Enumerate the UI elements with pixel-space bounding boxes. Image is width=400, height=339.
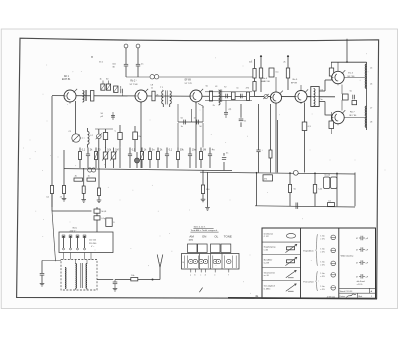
wire to C41 (97, 279, 113, 281)
label Tr1 (160, 87, 165, 92)
component 0,1 at x=130 (128, 148, 136, 169)
note line 1 (193, 226, 213, 229)
svg-text:1n: 1n (181, 126, 183, 128)
svg-text:alle Kond.: alle Kond. (357, 281, 366, 283)
svg-text:52 T 78: 52 T 78 (185, 83, 193, 85)
svg-text:1 Go: 1 Go (320, 286, 324, 288)
wire: speaker column (366, 62, 368, 130)
capacitor C15 box (269, 68, 279, 77)
legend row 1 label (264, 233, 274, 238)
label mains (70, 227, 77, 233)
output transformer secondary L6 (365, 106, 366, 127)
wire: output rail y=62 (331, 61, 367, 63)
resistor R3b (114, 86, 118, 92)
capacitor C18 (194, 118, 203, 129)
resistor R5 with ground (60, 150, 67, 201)
resistor R26 (87, 175, 96, 181)
svg-text:52 T 5N: 52 T 5N (130, 84, 138, 86)
coil L2 osc (88, 128, 90, 148)
svg-text:1 Go: 1 Go (320, 262, 324, 264)
capacitor C33 box (328, 200, 335, 206)
svg-text:EABC 80: EABC 80 (261, 80, 271, 83)
wire drop x=203 (198, 104, 203, 148)
transformer dashed box (61, 260, 97, 291)
frame bottom heavy segment (228, 297, 377, 300)
svg-text:5n: 5n (226, 152, 228, 154)
label tube V1 (62, 76, 71, 81)
wire stub V1 grid (52, 95, 64, 97)
legend row 5 label (264, 286, 275, 291)
resistor R30 (263, 175, 273, 181)
resistor R15 (259, 68, 262, 78)
svg-text:47k: 47k (264, 178, 267, 180)
switch contact 5 (213, 259, 217, 263)
switch bank contact strips (184, 256, 236, 269)
variable capacitor C1a (tuning gang) (72, 134, 80, 142)
svg-text:m. Gl.: m. Gl. (264, 275, 270, 277)
trimmer C9 (150, 75, 159, 79)
svg-text:d: d (205, 274, 206, 276)
svg-text:Ger.abgleich: Ger.abgleich (264, 286, 275, 288)
legend mid row 2 (320, 248, 335, 253)
wire: rail to V4 top (275, 77, 277, 92)
svg-text:47: 47 (356, 276, 358, 278)
label tube V7 (349, 112, 357, 117)
capacitor C14b (224, 101, 228, 119)
wire drop x=355 (354, 173, 356, 207)
wire: V6 to V7 link (341, 85, 343, 111)
title block line 1 (340, 290, 373, 293)
svg-text:± 5%: ± 5% (320, 289, 325, 291)
wire drop x=178 (177, 104, 179, 148)
component 2k at x=158 (157, 148, 164, 169)
legend right row 2 (356, 247, 369, 251)
wire to R41 (115, 279, 131, 281)
component 4n at x=210 (208, 148, 215, 169)
component 1k at x=142 (140, 148, 147, 169)
capacitor C3 box (115, 125, 123, 168)
switch bank dividers (200, 254, 223, 270)
svg-text:a: a (190, 274, 191, 276)
svg-text:1n: 1n (151, 87, 153, 89)
resistor R32 (313, 173, 322, 207)
svg-text:ON: ON (202, 234, 206, 238)
wire: V2 cathode drop (140, 102, 142, 168)
trimmer C2 (96, 129, 102, 168)
svg-text:Rö 7: Rö 7 (350, 112, 355, 114)
svg-text:Kopplungssp.: Kopplungssp. (264, 247, 277, 249)
wire: V3 cathode drop (195, 102, 197, 168)
legend symbol variable 1 (286, 270, 296, 277)
legend symbol potentiometer 1 (285, 244, 296, 252)
svg-text:220 240: 220 240 (89, 243, 97, 245)
component 1M at x=113.5 (110, 148, 118, 169)
svg-text:1 Go: 1 Go (320, 249, 324, 251)
svg-text:Drehkond.: Drehkond. (264, 233, 274, 235)
electrolytic C30 C31 (324, 175, 337, 189)
component 0,1 at x=80 (79, 148, 86, 169)
svg-text:b. Mitte: b. Mitte (264, 288, 271, 291)
wire: supply rail y=211 and drop to mains (52, 194, 92, 262)
capacitor C32 (296, 203, 298, 209)
svg-text:± 20 %: ± 20 % (357, 284, 363, 286)
note right column (357, 281, 366, 286)
svg-text:Stell. d. Dr.T.: Stell. d. Dr.T. (194, 226, 206, 229)
wire: ground bus y=169 (64, 169, 232, 171)
wire: HT rail y=206 (255, 206, 355, 207)
svg-text:Stand 7-12-53: Stand 7-12-53 (340, 290, 354, 293)
svg-text:OL: OL (214, 234, 218, 238)
svg-text:± 5%: ± 5% (320, 264, 325, 266)
wire V7 to OT (344, 117, 366, 119)
title block signature (340, 294, 356, 298)
svg-text:47: 47 (356, 238, 358, 240)
svg-text:50k: 50k (249, 61, 252, 63)
svg-text:47: 47 (356, 250, 358, 252)
label R6 C8 (150, 85, 159, 97)
svg-text:Expedition: Expedition (303, 250, 314, 253)
svg-text:5n: 5n (320, 99, 322, 101)
svg-text:2k: 2k (283, 61, 285, 63)
svg-text:2k: 2k (213, 105, 215, 107)
svg-text:50+50: 50+50 (324, 175, 331, 177)
wire: detector link y=122 (178, 121, 203, 123)
fuses Si1 Si2 (94, 207, 100, 232)
svg-text:110 125: 110 125 (89, 239, 97, 241)
svg-text:Taste AM u. Tonbl. ausgesch.: Taste AM u. Tonbl. ausgesch. (191, 229, 218, 232)
wire: B+ drop R16 (287, 55, 289, 90)
labels R2 R3 (100, 78, 110, 80)
wires stage3 rails (205, 92, 252, 101)
title block rows (339, 288, 376, 293)
terminal E (183, 262, 185, 264)
wire V6 anode up (337, 62, 339, 71)
note line 2 (190, 229, 218, 232)
svg-text:± 5%: ± 5% (320, 251, 325, 253)
table column dividers (301, 228, 339, 298)
capacitor C12 (226, 94, 228, 99)
legend symbol ellipse (286, 234, 295, 239)
output transformer primary L5 (365, 64, 366, 88)
labels Si1 Si2 (101, 211, 106, 220)
svg-text:b: b (195, 274, 196, 276)
legend symbol potentiometer 2 (285, 257, 296, 265)
labels stage3 (206, 86, 250, 90)
resistor R41 (131, 275, 138, 281)
svg-text:Rö 5: Rö 5 (293, 79, 298, 81)
wire: AVC line y=129 (95, 128, 113, 130)
legend right row 3 (356, 260, 369, 264)
svg-text:220 V∼: 220 V∼ (70, 231, 77, 233)
svg-text:EF 89: EF 89 (291, 82, 298, 84)
brace group 1 (316, 234, 318, 266)
wire: V5 anode load drop (304, 103, 306, 173)
antenna (157, 255, 163, 268)
junction dot (91, 56, 92, 57)
capacitor C14 (239, 104, 247, 127)
tube V7 EL84 (332, 110, 345, 125)
coupling network R20 C20 (343, 90, 355, 100)
component drk at x=137 (135, 152, 140, 168)
transformer leads (76, 260, 88, 291)
wire stubs Tr1 (163, 104, 169, 107)
capacitor C4a (111, 112, 115, 120)
capacitor C7 C8 (124, 64, 140, 66)
wire drop x=337 (336, 173, 338, 207)
switch contact 6 (216, 259, 220, 263)
resistor R2 (101, 84, 105, 90)
wire: HT rail y=172.5 (200, 172, 355, 174)
svg-text:e: e (214, 274, 215, 276)
component 10k at x=105.5 (102, 148, 112, 169)
lamp on rail and junction dots (256, 170, 338, 175)
svg-text:10k: 10k (131, 275, 134, 277)
legend right row 4 (356, 274, 369, 278)
resistor R2b (103, 129, 107, 148)
wire junction (138, 279, 154, 281)
resistor R4 (46, 186, 53, 199)
switch contact 4 (203, 259, 207, 263)
resistor R11 (246, 92, 249, 100)
wire antenna stem (153, 268, 161, 280)
svg-text:1n: 1n (194, 118, 196, 120)
core Tr1 (166, 90, 168, 104)
Tr3 windings (311, 89, 319, 106)
svg-text:1M: 1M (115, 150, 118, 152)
selector contacts (62, 235, 86, 248)
labels selector (89, 239, 97, 248)
capacitor C41 ground (113, 280, 118, 292)
svg-text:ECH 81: ECH 81 (62, 78, 71, 81)
svg-text:5k: 5k (294, 189, 296, 191)
resistor R31 (288, 173, 295, 207)
resistor R2c (133, 126, 142, 152)
selector terminals (63, 248, 86, 250)
switch contact 1 (189, 259, 193, 263)
svg-text:0,1: 0,1 (328, 200, 331, 202)
resistors R13 R14 stack (253, 59, 256, 96)
svg-text:EL 4: EL 4 (348, 73, 353, 75)
voltage selector box (59, 232, 113, 253)
resistor R3 (106, 84, 110, 90)
legend row 3 label (264, 259, 273, 265)
brace group 2 (316, 271, 318, 291)
wire drop x=256.5 (256, 173, 258, 206)
component 5n at x=150 (149, 148, 156, 169)
resistor R22 (329, 112, 334, 134)
capacitor C23 grid V6 (329, 62, 333, 80)
caption small (189, 238, 193, 241)
trimmer C16 (263, 94, 269, 99)
switch terminals (191, 269, 229, 272)
svg-text:47: 47 (356, 263, 358, 265)
wire: main signal path y=96 (52, 96, 335, 97)
svg-text:± 5%: ± 5% (320, 238, 325, 240)
svg-text:AM: AM (189, 234, 194, 238)
svg-text:Rö 4: Rö 4 (262, 78, 267, 80)
mark slash (199, 288, 202, 293)
svg-text:1k: 1k (88, 175, 90, 177)
svg-text:5k: 5k (350, 90, 352, 92)
wire stub detector (191, 109, 193, 122)
switch contact 7 (227, 259, 231, 263)
tube V2 EF89 (135, 89, 148, 104)
coil L1 antenna (83, 91, 84, 103)
push buttons (188, 244, 231, 253)
wire stub V5 top (300, 85, 302, 90)
table row dividers (262, 242, 301, 280)
spacer (42, 245, 59, 247)
core L1 (85, 90, 86, 101)
capacitor C4 (121, 86, 123, 96)
svg-text:Blatt: Blatt (358, 295, 362, 298)
component 1M at x=201 (200, 148, 207, 169)
drawing number (327, 297, 336, 299)
labels stage3 lower (213, 105, 233, 111)
gang link dashed (80, 137, 84, 139)
wire: left AVC bus x=52 (51, 96, 53, 207)
wire drop x=277 (277, 120, 279, 173)
tube V5 EABC80 (295, 89, 308, 104)
resistor R12 with ground (201, 170, 211, 202)
capacitor C13 (240, 94, 242, 99)
switch bank body (182, 254, 240, 270)
labels OT (370, 67, 373, 123)
svg-text:Datum: Datum (340, 295, 346, 298)
wire V6 to OT (344, 77, 366, 79)
wire drop x=207 ground (205, 173, 210, 211)
wire Tr3 to V7 grid (319, 102, 332, 116)
switch contact 3 (199, 259, 203, 263)
wire: B+ drop R15 (260, 55, 262, 92)
label tube V4 (261, 78, 271, 83)
capacitor C19 (222, 152, 228, 170)
core L3 (221, 90, 222, 103)
svg-text:EF 89: EF 89 (185, 80, 192, 82)
table outer box (262, 228, 376, 298)
transformer secondary W3 (85, 264, 88, 289)
resistor R25 (74, 175, 83, 181)
resistor R18 (302, 122, 311, 131)
component 0,1 at x=167 (165, 148, 173, 169)
label tube V6 (347, 73, 355, 78)
svg-text:1,2k: 1,2k (318, 189, 322, 191)
svg-text:V ∼: V ∼ (91, 246, 95, 248)
wire: dial lamp drops (126, 48, 138, 77)
tube V4 EABC80 (270, 91, 282, 105)
value labels C7 C8 (112, 63, 144, 68)
legend row 4 label (264, 271, 276, 277)
label tube V3 (185, 80, 193, 85)
labels R15 R16 (249, 61, 286, 63)
svg-text:Netz: Netz (73, 227, 77, 230)
wire stubs R2 R3 (103, 81, 109, 85)
svg-text:Widerstandsw.: Widerstandsw. (341, 255, 354, 258)
wires selector to transformer (64, 253, 92, 260)
mark at table left (255, 294, 259, 298)
wire: HT from frame top (346, 39, 348, 63)
IF transformer Tr3 box (311, 87, 319, 107)
schematic border frame (17, 38, 379, 298)
resistor R6 (152, 91, 155, 101)
terminal labels (190, 274, 229, 276)
svg-text:Gleichrichter: Gleichrichter (264, 271, 276, 274)
component 50 at x=96 (94, 148, 101, 169)
wire: V1 cathode to gang (75, 101, 77, 134)
labels Tr3 (320, 90, 323, 101)
transformer winding W1 (64, 268, 67, 289)
wire V5 to Tr3 (307, 96, 311, 98)
svg-text:1 Go: 1 Go (320, 236, 324, 238)
capacitor C17 (181, 118, 186, 129)
svg-text:0,4 W: 0,4 W (264, 263, 269, 265)
legend right row 1 (356, 236, 369, 240)
label tube V2 (130, 80, 138, 85)
IF transformer Tr1 windings (162, 91, 172, 104)
switch contact 2 (193, 259, 197, 263)
transformer primary W2 (75, 264, 78, 289)
wire: V4 drop (275, 103, 277, 172)
label group 1 (303, 250, 314, 253)
label tube V5 (291, 79, 298, 84)
svg-text:Si 0,8: Si 0,8 (101, 211, 106, 213)
svg-text:Rö 2: Rö 2 (130, 80, 136, 82)
component 10n at x=190 (188, 148, 196, 169)
title block line 2 (358, 295, 372, 298)
lamp La1 La2 (124, 44, 140, 48)
tube V3 EF89 (190, 89, 203, 104)
label right column (341, 255, 354, 258)
resistor R8 with ground (97, 168, 102, 203)
capacitor C21 box (352, 101, 357, 105)
resistor R24 drop (269, 104, 272, 173)
resistor R7 with ground (81, 168, 86, 202)
resistor R1 (91, 91, 94, 102)
label 50uF (101, 113, 104, 118)
selector contact studs (63, 236, 86, 238)
wire Tr3 to V6 grid (319, 80, 332, 91)
scan specks (23, 53, 385, 293)
labels C1 L2 (69, 131, 94, 137)
label group 2 (303, 280, 314, 283)
svg-text:4k: 4k (75, 175, 77, 177)
component 2k at x=88 (86, 148, 93, 169)
svg-text:(AM): (AM) (189, 238, 193, 241)
legend mid row 4 (320, 273, 335, 278)
svg-text:1M: 1M (138, 136, 141, 138)
transformer core (81, 263, 83, 288)
trimmer pair C5 C6 (88, 168, 96, 172)
svg-text:1 Go: 1 Go (320, 273, 324, 275)
capacitor C22 drop (256, 104, 260, 173)
legend symbol variable 2 (286, 284, 296, 291)
legend mid row 5 (320, 286, 335, 291)
svg-text:SF 7 86: SF 7 86 (349, 115, 357, 117)
wire: osc rail y=77 (126, 76, 255, 78)
capacitor C40 to ground (40, 261, 61, 287)
component 30k at x=178 (177, 148, 185, 169)
resistor R16 (286, 68, 289, 78)
svg-text:c: c (200, 274, 201, 276)
resistor R10 (232, 92, 236, 100)
coil L3 (219, 90, 221, 105)
svg-text:TONE: TONE (224, 234, 232, 238)
svg-text:± 5%: ± 5% (320, 276, 325, 278)
svg-text:Fernsehen: Fernsehen (303, 280, 314, 283)
switch captions (189, 234, 231, 238)
resistor R9 (209, 91, 212, 101)
title block cells (358, 288, 370, 298)
